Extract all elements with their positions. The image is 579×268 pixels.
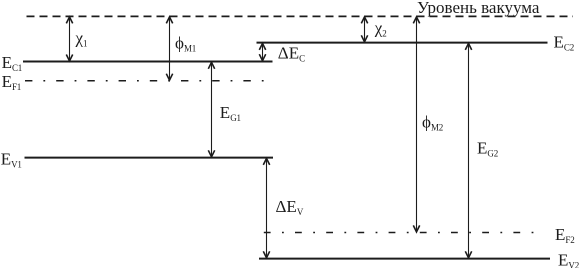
svg-text:EC2: EC2	[554, 33, 575, 53]
band gap arrow E_G2	[468, 44, 470, 258]
svg-text:EV2: EV2	[558, 251, 579, 268]
svg-text:EG1: EG1	[220, 103, 241, 123]
svg-text:ϕM1: ϕM1	[175, 34, 196, 54]
vacuum level dashed line	[27, 15, 574, 17]
svg-text:χ1: χ1	[75, 29, 88, 49]
svg-text:ϕM2: ϕM2	[422, 113, 443, 133]
svg-text:ΔEC: ΔEC	[278, 44, 305, 64]
svg-text:EC1: EC1	[2, 53, 23, 73]
svg-text:EF2: EF2	[555, 225, 575, 245]
svg-text:EG2: EG2	[477, 139, 498, 159]
svg-text:EV1: EV1	[1, 150, 22, 170]
Fermi level dash-dot line E_F1	[25, 80, 266, 82]
svg-text:Уровень вакуума: Уровень вакуума	[417, 0, 540, 17]
svg-text:χ2: χ2	[374, 19, 387, 39]
svg-text:EF1: EF1	[2, 72, 22, 92]
valence band edge line E_V1	[25, 157, 274, 159]
conduction band offset arrow dE_C	[262, 44, 264, 61]
work function arrow phi_M2	[416, 17, 418, 231]
svg-text:ΔEV: ΔEV	[276, 197, 304, 217]
Fermi level dash-dot line E_F2	[264, 232, 537, 234]
conduction band edge line E_C2	[257, 42, 548, 44]
conduction band edge line E_C1	[23, 61, 273, 63]
band gap arrow E_G1	[211, 63, 213, 157]
electron affinity arrow chi2	[364, 17, 366, 41]
valence band offset arrow dE_V	[266, 159, 268, 258]
valence band edge line E_V2	[259, 258, 550, 260]
electron affinity arrow chi1	[69, 17, 71, 61]
work function arrow phi_M1	[169, 17, 171, 80]
